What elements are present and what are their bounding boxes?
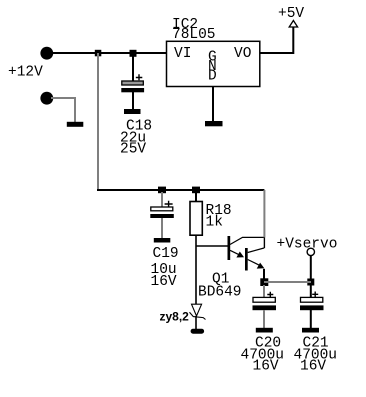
transistor Q1 emitter 2 arrowhead — [257, 263, 265, 269]
svg-text:25V: 25V — [120, 142, 146, 158]
wire main rail y190 — [97, 189, 264, 191]
supply arrow +5V triangle — [289, 21, 297, 28]
capacitor C21 top plate — [301, 297, 323, 302]
ground bar C21 — [302, 328, 319, 333]
capacitor C18 top plate (gray filled) — [122, 81, 144, 85]
wire base of Q1 — [196, 245, 228, 247]
wire C20 top stem gray — [263, 285, 265, 298]
capacitor C18 plus sign — [136, 74, 143, 80]
svg-text:D: D — [208, 69, 217, 85]
transistor Q1 base bar 2 — [245, 248, 248, 271]
svg-text:16V: 16V — [151, 274, 177, 290]
wire C18 bottom stem — [132, 92, 134, 109]
wire C19 bottom stem gray — [161, 218, 163, 238]
node junction C19 tap — [158, 187, 166, 194]
wire VO to +5V — [260, 27, 293, 53]
svg-text:16V: 16V — [253, 359, 279, 375]
ground bar IC2 — [205, 121, 223, 126]
resistor R18 body — [190, 202, 202, 236]
terminal circle +Vservo — [307, 248, 314, 255]
transistor Q1 base bar 1 — [228, 236, 231, 260]
terminal pad lower left — [40, 92, 53, 105]
svg-text:VO: VO — [234, 46, 251, 62]
capacitor C20 plus sign — [267, 292, 273, 298]
wire lower terminal to ground — [51, 98, 75, 122]
svg-text:78L05: 78L05 — [172, 27, 216, 43]
transistor Q1 collector 1 — [230, 237, 264, 244]
terminal pad +12V top — [40, 47, 53, 60]
transistor Q1 collector 2 — [248, 248, 264, 253]
transistor Q1 emitter 1 — [230, 250, 240, 255]
node junction left (C20) — [260, 278, 268, 286]
wire +12V terminal to IC2 VI pin — [51, 52, 167, 54]
wire zener stem — [195, 316, 197, 330]
wire R18 bottom to zener and base tee — [195, 235, 197, 304]
capacitor C19 plus sign — [165, 201, 173, 207]
capacitor C21 plus sign — [312, 292, 318, 298]
capacitor C20 top plate — [253, 297, 275, 302]
zener diode zy8,2 triangle — [192, 304, 202, 316]
svg-text:+12V: +12V — [8, 65, 43, 81]
zener cathode bar — [190, 312, 206, 319]
wire C19 top stem gray — [161, 192, 163, 207]
ground bar C18 — [124, 109, 141, 114]
capacitor C21 bottom plate — [300, 305, 324, 310]
wire +Vservo down to junction — [310, 256, 312, 282]
capacitor C19 bottom plate — [150, 214, 174, 218]
wire C21 top stem — [310, 285, 312, 298]
wire collector vertical gray — [263, 190, 265, 237]
wire gray vertical from +12V rail down to lower rail — [97, 53, 99, 191]
svg-text:zy8,2: zy8,2 — [160, 310, 190, 324]
pad at zener bottom — [191, 329, 205, 334]
svg-text:BD649: BD649 — [198, 285, 242, 301]
wire C18 top stem — [132, 53, 134, 81]
svg-text:VI: VI — [174, 46, 191, 62]
wire emitter down to junction — [263, 269, 265, 282]
wire R18 top stem — [195, 190, 197, 202]
svg-text:16V: 16V — [300, 359, 326, 375]
ground bar C20 — [256, 328, 273, 333]
wire C21 bottom stem — [310, 310, 312, 328]
transistor Q1 emitter 1 arrowhead — [236, 252, 244, 258]
ground bar lower left — [67, 122, 84, 127]
transistor Q1 emitter 2 — [248, 260, 260, 266]
node junction R18 tap — [192, 187, 200, 194]
capacitor C19 top plate — [151, 207, 173, 211]
node junction at x133 on +12V rail (C18 tap) — [130, 50, 137, 57]
svg-text:1k: 1k — [206, 215, 223, 231]
capacitor C18 bottom plate — [121, 88, 144, 92]
capacitor C20 bottom plate — [253, 305, 277, 310]
wire IC2 GND stem — [212, 87, 214, 122]
wire C20 bottom stem gray — [263, 310, 265, 328]
wire between junctions gray — [264, 281, 311, 283]
node junction right (C21) — [307, 279, 314, 286]
ground bar C19 — [154, 238, 171, 243]
svg-text:+5V: +5V — [278, 6, 304, 22]
node junction at x98 on +12V rail — [95, 50, 102, 57]
regulator IC2 box — [167, 41, 260, 86]
svg-text:C19: C19 — [153, 246, 179, 262]
